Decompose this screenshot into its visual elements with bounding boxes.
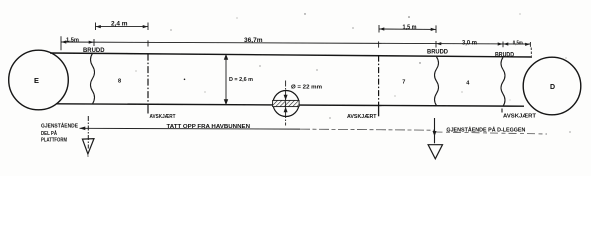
main dimension line [61,42,530,44]
dashed continuation under right text [435,132,548,134]
tick at x61 [60,36,62,50]
svg-text:BRUDD: BRUDD [495,53,515,59]
dimension 2,4 m line [96,23,149,31]
svg-text:Ø = 22 mm: Ø = 22 mm [291,85,322,91]
svg-text:AVSKJÆRT: AVSKJÆRT [150,114,176,120]
avskjaert cut line 1 (dash-dot) [147,54,149,105]
vertical dimension D = 2,6 m [224,54,228,105]
left datum triangle [82,139,94,154]
svg-text:DEL PÅ: DEL PÅ [41,130,57,137]
svg-text:1,5m: 1,5m [66,37,79,43]
svg-text:BRUDD: BRUDD [83,48,105,54]
svg-text:GJENSTÅENDE PÅ D-LEGGEN: GJENSTÅENDE PÅ D-LEGGEN [446,126,525,133]
tick crossing at x148 [147,40,149,46]
right datum triangle [428,145,442,159]
wire band top line [50,53,532,57]
brudd wavy line 2 [435,57,439,106]
cross-section hatched core [273,100,300,106]
svg-text:TATT OPP FRA HAVBUNNEN: TATT OPP FRA HAVBUNNEN [167,124,251,130]
svg-text:E: E [34,76,39,85]
svg-text:0,5m: 0,5m [513,41,523,47]
svg-text:BRUDD: BRUDD [427,50,449,56]
svg-text:AVSKJÆRT: AVSKJÆRT [503,114,536,120]
right datum vertical with down arrow [434,118,436,143]
svg-text:36,7m: 36,7m [244,38,263,44]
avskjaert tick 1 below band [147,104,149,113]
tiny dot in mid section [184,79,186,81]
wire cross-section circle [273,91,299,117]
diameter arrows [284,95,288,101]
svg-text:3,0 m: 3,0 m [462,40,477,47]
arrow right at 94 [89,41,94,44]
svg-text:7: 7 [402,80,405,86]
tick crossing at x378.6 [378,41,380,47]
svg-text:2,4 m: 2,4 m [111,21,128,28]
left datum centerline [87,116,89,149]
cross-section centerline (dash-dot) [285,81,287,126]
dashed drop from 0,5m tick to circle [530,48,532,57]
svg-text:PLATTFORM: PLATTFORM [41,138,67,144]
avskjaert cut line 2 (dash-dot) [378,56,380,106]
brudd wavy line 3 [501,57,505,106]
svg-text:D = 2,6 m: D = 2,6 m [229,77,253,83]
scan speckles [87,13,570,157]
svg-text:GJENSTÅENDE: GJENSTÅENDE [41,123,78,130]
arrow left at 61 [61,40,66,43]
ticks and arrows 3,0 m / 0,5m [435,41,437,48]
avskjaert tick 2 below band [378,106,380,117]
svg-text:8: 8 [118,78,121,84]
brudd wavy line 1 [91,53,95,104]
svg-text:D: D [550,84,555,91]
avskjaert tick 3 below band [501,109,503,113]
svg-text:1,5 m: 1,5 m [403,24,417,31]
right sheave circle D [523,57,581,115]
wire band bottom line [56,104,524,106]
svg-text:AVSKJÆRT: AVSKJÆRT [347,114,377,120]
tick at x94 [93,39,95,46]
svg-text:4: 4 [466,80,470,86]
left sheave circle E [9,50,69,110]
dimension 1,5 m right [379,25,436,33]
bottom annotation line with left arrow [80,127,301,130]
